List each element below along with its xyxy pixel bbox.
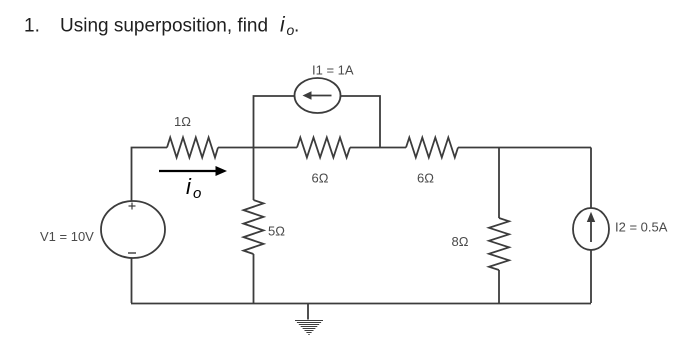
wire ground stub <box>307 303 309 320</box>
ground symbol hatched triangle <box>295 321 323 335</box>
wire V1 bottom <box>131 258 133 303</box>
wire 5ohm branch bottom <box>253 254 255 303</box>
wire between 6ohm resistors <box>350 147 406 149</box>
wire 8ohm branch bottom <box>498 270 500 303</box>
wire I1 loop right leg <box>341 96 381 148</box>
io arrow <box>159 166 227 176</box>
svg-text:i: i <box>186 174 192 199</box>
svg-text:1.: 1. <box>24 16 40 37</box>
svg-text:V1 = 10V: V1 = 10V <box>40 229 94 244</box>
svg-text:Using superposition, find: Using superposition, find <box>60 16 268 37</box>
current source I2 arrow <box>587 212 595 242</box>
current source I1 arrow <box>303 91 332 99</box>
resistor 5ohm zigzag <box>244 200 264 254</box>
current source I2 circle <box>573 208 609 250</box>
resistor R 1ohm zigzag <box>167 138 218 158</box>
svg-text:i: i <box>280 14 286 37</box>
wire 5ohm branch top <box>253 148 255 201</box>
wire bottom rail <box>131 303 591 305</box>
wire right vertical bottom <box>590 250 592 303</box>
V1 minus sign <box>128 252 136 254</box>
wire I1 loop left leg <box>254 96 296 148</box>
svg-text:6Ω: 6Ω <box>312 171 329 186</box>
svg-text:I2 = 0.5A: I2 = 0.5A <box>615 220 668 235</box>
svg-text:I1 = 1A: I1 = 1A <box>312 63 354 78</box>
resistor 8ohm zigzag <box>489 218 509 270</box>
svg-text:1Ω: 1Ω <box>174 114 191 129</box>
resistor 6ohm left zigzag <box>297 138 350 158</box>
V1 plus sign <box>129 203 136 210</box>
wire top rail right segment <box>458 147 591 149</box>
wire between 1ohm and 6ohm <box>218 147 297 149</box>
wire top rail left segment <box>132 148 168 202</box>
svg-text:5Ω: 5Ω <box>268 224 285 239</box>
current source I1 circle <box>295 78 341 113</box>
title <box>24 14 299 39</box>
svg-text:6Ω: 6Ω <box>417 171 434 186</box>
wire 8ohm branch top <box>498 148 500 219</box>
wire right vertical top <box>590 148 592 209</box>
resistor 6ohm right zigzag <box>406 138 458 158</box>
voltage source V1 circle <box>101 201 165 258</box>
svg-text:.: . <box>294 16 299 37</box>
svg-text:8Ω: 8Ω <box>452 234 469 249</box>
svg-text:o: o <box>193 185 201 202</box>
